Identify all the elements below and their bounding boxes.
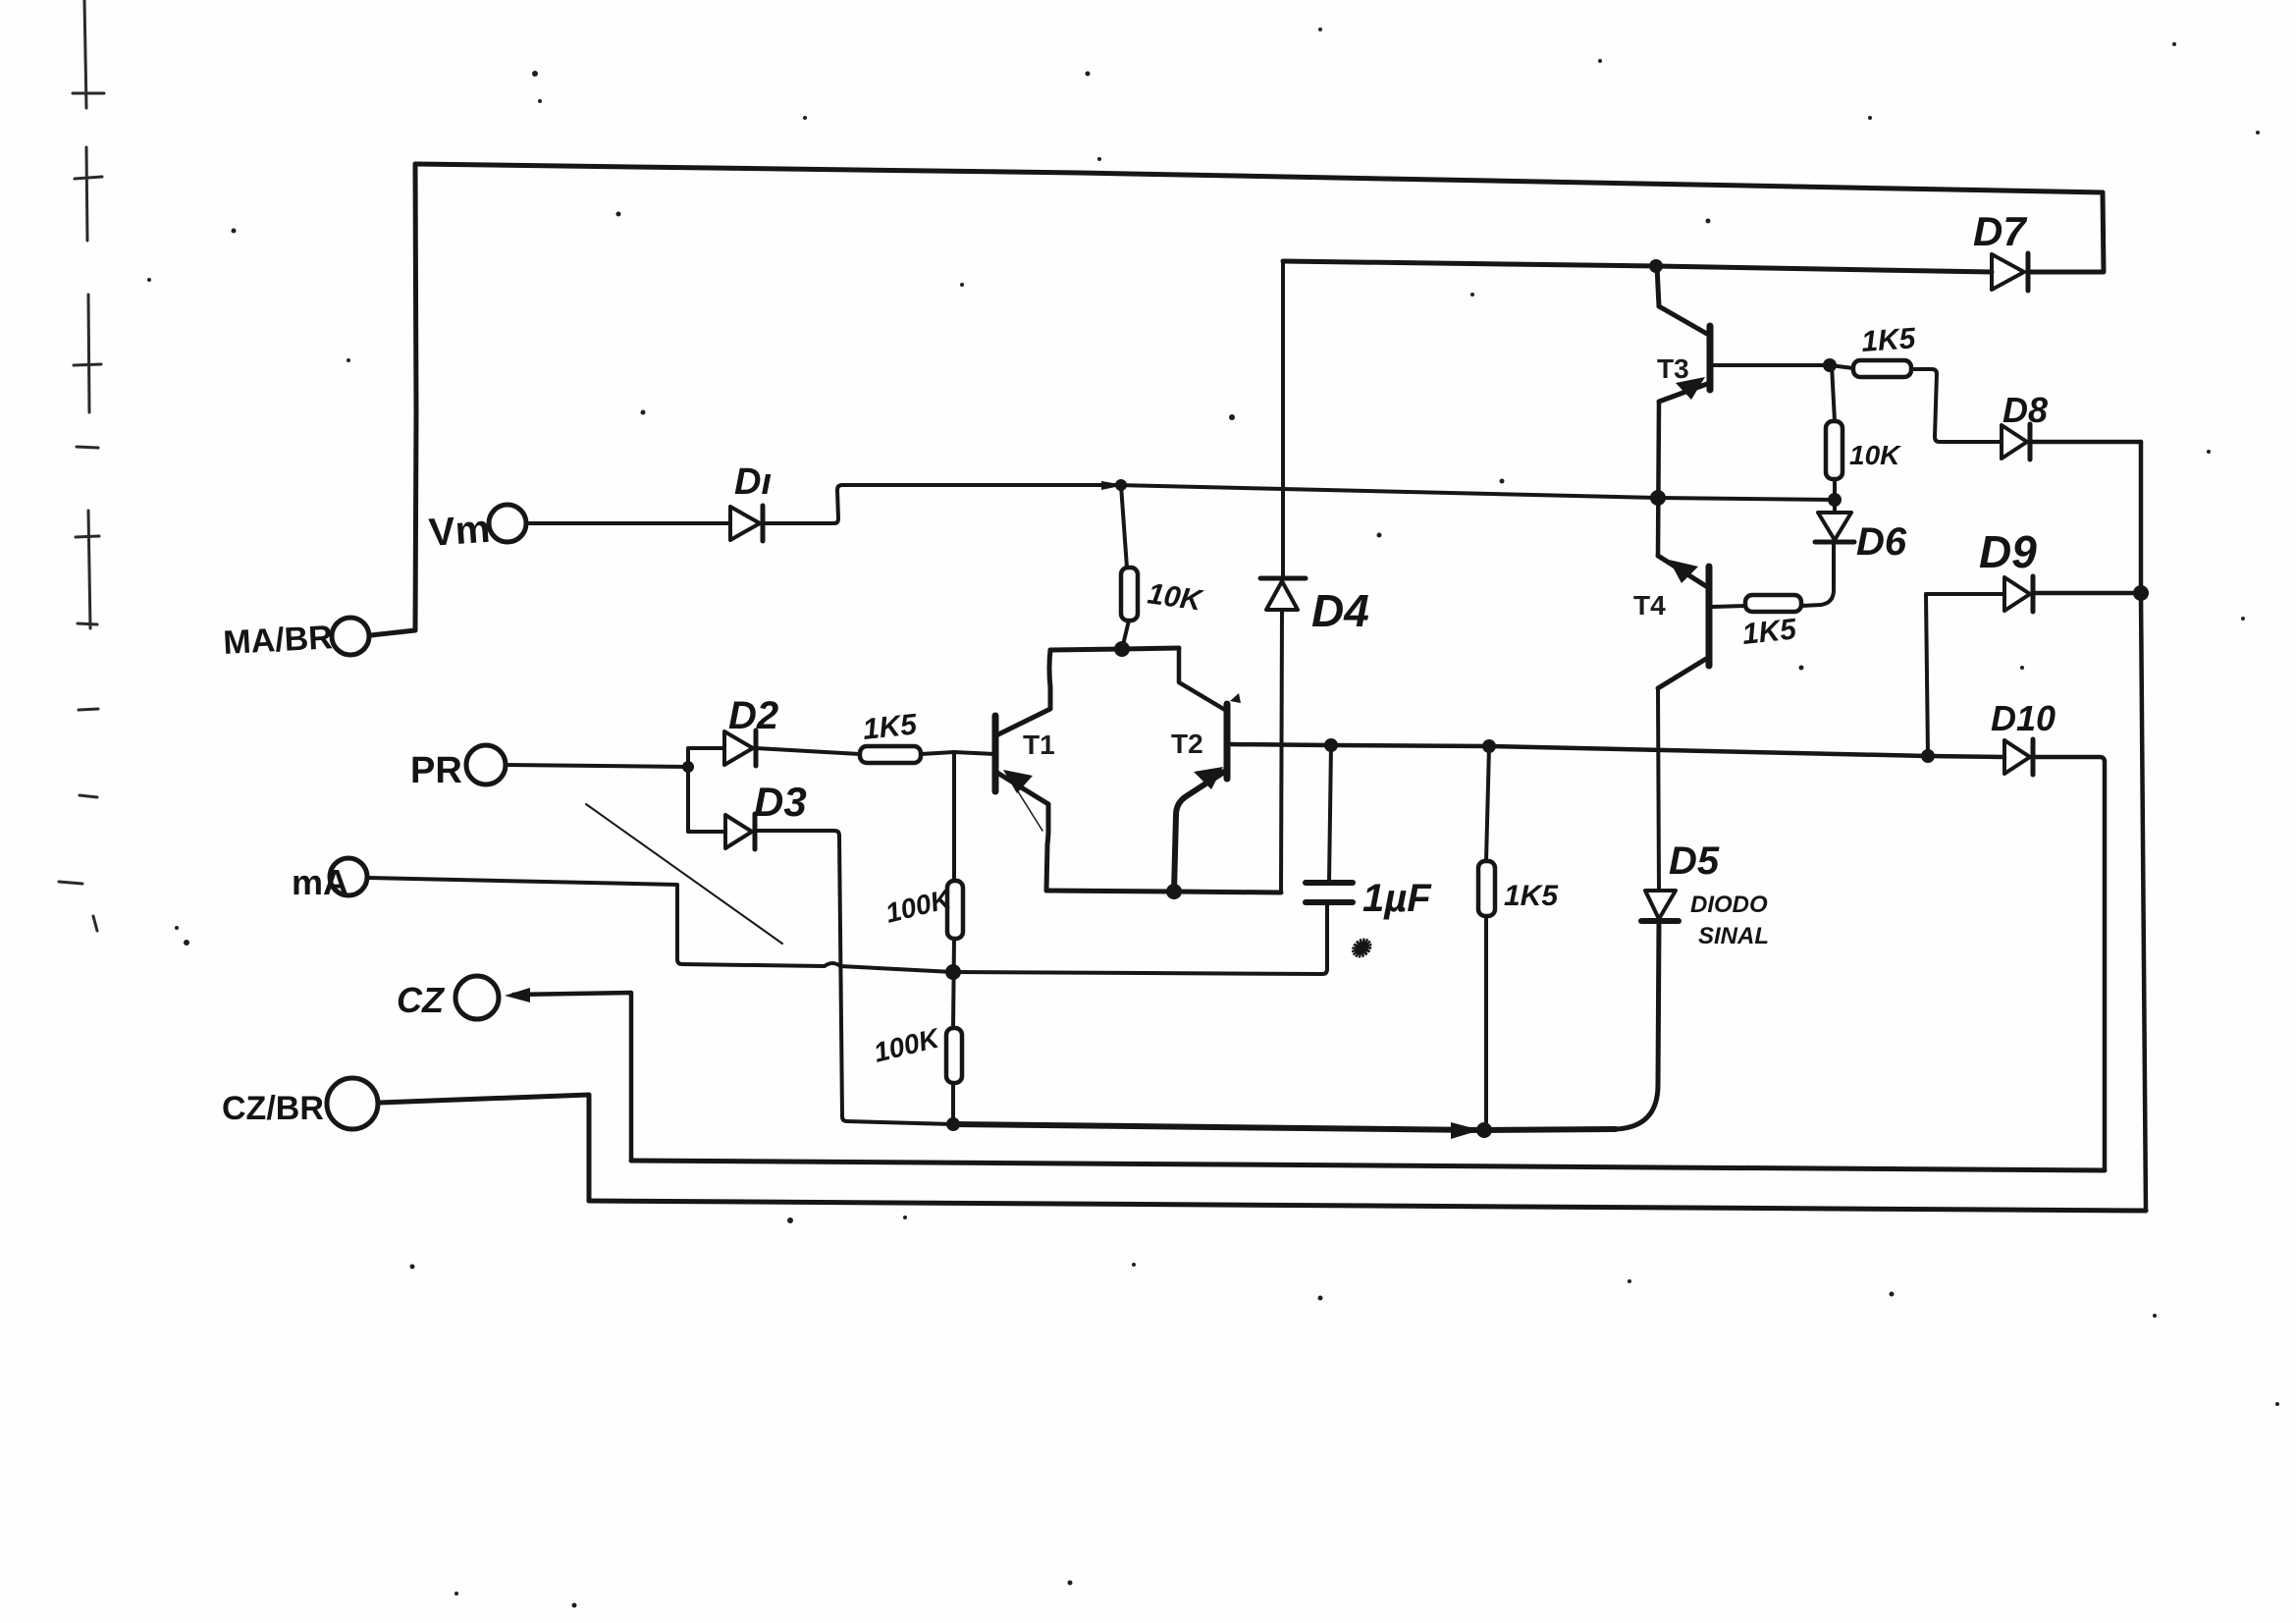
svg-text:PR: PR <box>410 750 462 791</box>
wire D7 anode to junction <box>1656 266 1992 272</box>
svg-text:T4: T4 <box>1633 590 1666 621</box>
svg-text:CZ: CZ <box>397 980 446 1020</box>
WIRES_START <box>327 164 2149 1211</box>
wire main bus T2 base to D10 <box>1228 744 2004 757</box>
wire bus1 right end curving up into D5 anode <box>1616 921 1659 1129</box>
svg-text:T2: T2 <box>1171 729 1203 759</box>
wire T2 collector riser <box>1179 648 1225 710</box>
resistor 10K right <box>1826 421 1842 479</box>
transistor T4 <box>1658 556 1709 688</box>
svg-text:1K5: 1K5 <box>1740 613 1798 651</box>
wire D3 cathode right and down to bus1 <box>755 831 953 1124</box>
wire top supply rail <box>415 164 2103 192</box>
svg-text:CZ/BR: CZ/BR <box>222 1090 324 1127</box>
wire between 100Ks <box>953 939 954 1028</box>
diode D7 <box>1992 253 2028 291</box>
svg-text:100K: 100K <box>882 883 955 929</box>
svg-text:Vm: Vm <box>428 508 492 555</box>
terminal PR <box>466 745 506 784</box>
node latch bottom / T2 emitter <box>1166 884 1182 899</box>
wire latch bottom rail <box>1046 891 1281 893</box>
resistor 100K upper <box>947 881 963 939</box>
LABELS_START <box>222 208 2056 1127</box>
svg-text:DIODO: DIODO <box>1690 892 1768 918</box>
resistor 1K5 T4 base <box>1745 595 1801 612</box>
node latch top <box>1114 641 1130 657</box>
wire mid rail to right <box>1119 485 1835 500</box>
wire VM to D1 <box>526 521 730 525</box>
wire 1K5 mid to bus1 <box>1484 916 1488 1130</box>
wire right rail down to bus3 <box>2141 442 2146 1211</box>
transistor T3 <box>1659 306 1710 402</box>
terminal CZ/BR <box>327 1078 378 1129</box>
svg-text:10K: 10K <box>1146 577 1205 618</box>
node mid rail / 10K drop <box>1101 481 1125 490</box>
stray pen line <box>586 804 782 944</box>
resistor 1K5 mid vertical <box>1486 746 1489 861</box>
svg-text:1K5: 1K5 <box>861 708 919 746</box>
diode D8 <box>2002 424 2030 460</box>
diode D6 <box>1815 513 1854 542</box>
svg-text:1K5: 1K5 <box>1860 322 1918 358</box>
wire 10K to latch top node <box>1122 621 1129 649</box>
page margin artifacts <box>59 0 104 931</box>
wire T3 emitter / T4 collector vertical <box>1658 402 1659 556</box>
wire top-right corner down to D7 cathode <box>2031 192 2104 272</box>
wire D9 cathode to right rail <box>2033 591 2141 596</box>
wire bus3 <box>589 1201 2146 1211</box>
resistor 1K5 top right <box>1853 360 1911 377</box>
wire D5 cathode up to T4 emitter <box>1658 688 1659 891</box>
node mid rail right end at 10K/D6 <box>1828 493 1842 507</box>
wire D9 input vertical from bus <box>1926 594 1928 756</box>
svg-text:Dı: Dı <box>734 461 772 503</box>
svg-text:D10: D10 <box>1991 698 2056 738</box>
wire CZ riser <box>513 993 631 1161</box>
wire D1 cathode step up to mid rail <box>763 485 1119 523</box>
wire latch top rail <box>1050 648 1179 650</box>
svg-text:D2: D2 <box>728 694 778 737</box>
transistor T1 <box>995 716 1048 831</box>
wire capacitor top plate drop <box>1329 745 1331 883</box>
resistor 100K lower <box>946 1028 962 1083</box>
wire D8 cathode to right rail <box>2030 440 2141 445</box>
node bus 1K5 tap <box>1482 739 1496 753</box>
wire left vertical from top rail down to MA/BR <box>371 164 416 635</box>
terminal MA/BR <box>332 618 369 655</box>
svg-text:D3: D3 <box>754 779 807 825</box>
svg-text:1µF: 1µF <box>1362 877 1432 920</box>
wire D4 anode down to latch bottom rail <box>1281 610 1282 893</box>
node PR split <box>682 761 694 773</box>
svg-text:SINAL: SINAL <box>1698 923 1769 949</box>
svg-text:100K: 100K <box>871 1022 943 1068</box>
wire up to D2 <box>688 748 724 767</box>
node T3 base / 10K / 1K5 <box>1823 358 1837 372</box>
wire into D9 <box>1926 592 2004 596</box>
wire T3 base <box>1711 363 1830 367</box>
wire T3 collector to top junction <box>1657 266 1659 306</box>
wire D10 cathode to bus2 drop <box>2033 757 2105 1170</box>
svg-text:D9: D9 <box>1979 526 2037 577</box>
wire 100K lower to bus1 <box>951 1083 955 1124</box>
diode D3 <box>725 814 755 849</box>
svg-text:mA: mA <box>292 862 348 902</box>
wire 1K5 to T1 base <box>921 752 995 754</box>
transistor T2 <box>1174 693 1241 892</box>
node junction D7/T3 collector <box>1649 259 1663 273</box>
wire 10K drop from mid rail <box>1121 485 1127 568</box>
wire bus1 <box>953 1124 1616 1130</box>
wire 1K5 to D8 <box>1911 369 2002 442</box>
wire T1 collector riser <box>998 650 1050 734</box>
wire 1K5 to T4 base <box>1713 606 1745 607</box>
diode D10 <box>2004 739 2033 775</box>
diode D5 <box>1641 891 1679 921</box>
node bus capacitor tap <box>1324 738 1338 752</box>
wire 100K hang from T1 base wire <box>952 752 956 881</box>
terminal MA <box>330 858 367 895</box>
svg-text:1K5: 1K5 <box>1504 880 1559 912</box>
wire CZ/BR riser <box>380 1095 589 1201</box>
svg-text:T1: T1 <box>1023 730 1055 760</box>
svg-text:D7: D7 <box>1973 208 2027 254</box>
wire second rail from D4 corner <box>1283 261 1656 266</box>
node bus1 main junction with arrow <box>1451 1122 1480 1139</box>
wire T1 emitter down to bottom rail <box>1046 804 1048 891</box>
svg-text:D6: D6 <box>1856 520 1907 564</box>
wire MA terminal net <box>367 878 953 972</box>
wire D4 branch vertical <box>1281 261 1285 578</box>
diode D4 <box>1260 578 1306 610</box>
svg-text:10K: 10K <box>1849 440 1901 470</box>
svg-text:MA/BR: MA/BR <box>222 619 333 662</box>
terminal CZ <box>455 976 499 1019</box>
wire 10K to D6 node <box>1833 479 1837 513</box>
capacitor C1 1uF <box>1306 883 1353 902</box>
node bus D9 tap <box>1921 749 1935 763</box>
diode D2 <box>724 730 756 766</box>
terminal VM <box>489 505 526 542</box>
diode D1 <box>730 506 763 541</box>
wire 10K right drop <box>1832 365 1835 421</box>
node MA net / 100K divider <box>945 964 961 980</box>
wire bus2 <box>631 1161 2105 1170</box>
wire down to D3 <box>688 767 725 832</box>
node mid rail / T3-T4 vertical <box>1650 490 1666 506</box>
svg-text:D4: D4 <box>1311 585 1369 636</box>
arrow into CZ <box>505 988 530 1002</box>
wire PR to junction <box>506 765 688 767</box>
resistor 1K5 base T1 <box>860 746 921 763</box>
node bus1 / 100K <box>946 1117 960 1131</box>
wire base node to 1K5 <box>1830 365 1853 368</box>
svg-text:D8: D8 <box>2002 390 2048 430</box>
svg-text:T3: T3 <box>1657 353 1689 384</box>
resistor 10K left <box>1121 568 1138 621</box>
wire capacitor bottom to MA net <box>953 902 1327 974</box>
node right rail / D9 <box>2133 585 2149 601</box>
wire D6 anode down to 1K5 T4 <box>1801 542 1834 606</box>
svg-text:✺: ✺ <box>1349 934 1372 963</box>
svg-text:D5: D5 <box>1669 839 1720 883</box>
wire D2 to 1K5 <box>756 748 860 754</box>
diode D9 <box>2004 576 2033 612</box>
